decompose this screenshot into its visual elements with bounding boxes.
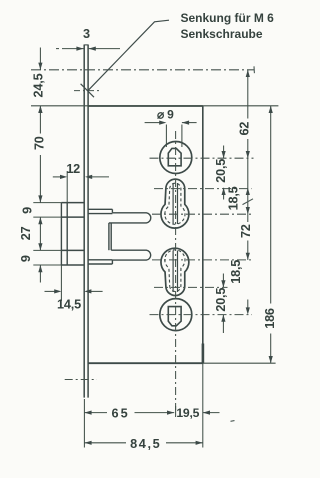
dim 18,5 bottom arrow: [221, 280, 225, 287]
dim 3 line: [56, 48, 59, 50]
dim dia9 line: [145, 122, 160, 124]
svg-text:20,5: 20,5: [214, 288, 228, 312]
svg-text:72: 72: [239, 224, 253, 238]
dim 70 line: [39, 106, 41, 134]
dim 12 line: [53, 176, 61, 178]
dim 62 arrows: [246, 70, 250, 77]
dim 186 arrows: [269, 106, 273, 113]
dim 65 arrows: [84, 411, 91, 415]
extension + dimension lines: [31, 48, 278, 448]
stray stroke near 18,5: [243, 199, 254, 205]
follower hole top (circle): [160, 142, 192, 174]
faceplate: [84, 45, 88, 398]
svg-text:3: 3: [83, 27, 90, 41]
svg-text:186: 186: [263, 308, 277, 329]
svg-text:Senkung für M 6: Senkung für M 6: [181, 11, 275, 25]
svg-text:27: 27: [19, 226, 33, 240]
svg-text:12: 12: [66, 162, 80, 176]
leader line to text: [81, 20, 169, 97]
svg-text:62: 62: [238, 122, 252, 136]
stray dash bottom right: [231, 420, 235, 423]
keyhole 1 inner dashed: [165, 183, 185, 224]
dim 9 top / 27 arrows: [38, 217, 42, 224]
svg-text:24,5: 24,5: [32, 73, 46, 97]
vertical centre line of holes: [175, 131, 177, 410]
screw centre line top: [31, 69, 254, 71]
follower square 9mm bottom: [168, 307, 181, 326]
centre line keyhole2 cap: [154, 286, 228, 288]
centre line keyhole1 cap: [154, 188, 252, 190]
keyhole 2 outer: [161, 248, 189, 295]
follower square 9mm top: [168, 148, 181, 165]
centre line keyhole2 circle: [152, 259, 251, 261]
centre line follower 2: [150, 314, 253, 316]
centre lines: [31, 70, 254, 410]
keyhole 2 key slot: [172, 251, 174, 293]
keyhole 1 key slot: [172, 183, 174, 224]
dim 24,5 arrows: [38, 63, 42, 70]
top extension line: [31, 105, 278, 107]
arrowheads: [38, 47, 273, 445]
lock case outline: [88, 106, 203, 363]
follower hole bottom (circle): [160, 299, 192, 331]
bolt tail fork right of faceplate: [88, 209, 151, 264]
centre line follower 1: [150, 157, 254, 159]
svg-text:19,5: 19,5: [176, 406, 199, 420]
bottom dims 65 / 19,5: [84, 412, 107, 414]
block left face extension down: [60, 265, 62, 301]
dim 9 lower shaft: [39, 265, 41, 283]
svg-text:9: 9: [20, 207, 34, 214]
centre line keyhole1 circle: [152, 213, 254, 215]
svg-text:65: 65: [112, 407, 130, 421]
dim 3 arrows: [76, 47, 83, 51]
bottom dim 84,5: [84, 442, 126, 444]
screw mark dashdot top: [74, 90, 100, 92]
right column 62/18,5/72: [247, 70, 249, 119]
screw centre line bottom: [65, 379, 97, 381]
bottom extension verticals: [83, 399, 85, 448]
svg-text:20,5: 20,5: [214, 159, 228, 183]
dim 9 bottom arrow: [38, 265, 42, 272]
keyhole 1 outer: [161, 179, 189, 228]
svg-text:18,5: 18,5: [229, 260, 243, 284]
dim 20,5 bottom shafts: [222, 274, 224, 288]
svg-text:14,5: 14,5: [57, 298, 81, 312]
dim 72 arrows: [246, 253, 250, 260]
leader cross stroke: [81, 84, 94, 97]
dim 20,5 bottom arrow: [221, 315, 225, 322]
svg-text:9: 9: [19, 255, 33, 262]
dim 70 arrows: [38, 106, 42, 113]
dim 27 line: [39, 217, 41, 250]
dim 19,5 arrow: [203, 411, 210, 415]
svg-text:Senkschraube: Senkschraube: [181, 27, 263, 41]
svg-text:70: 70: [33, 136, 47, 150]
dim 14,5 arrows: [54, 289, 61, 293]
dim dia9 arrows: [159, 121, 166, 125]
bolt head block left of faceplate: [61, 203, 84, 265]
dim 20,5 top arrows: [222, 151, 226, 158]
dim 18,5 top arrows: [246, 188, 250, 195]
dim 186 line: [270, 106, 272, 304]
svg-text:⌀ 9: ⌀ 9: [157, 108, 174, 122]
dim 12 arrows: [60, 175, 67, 179]
dim 84,5 arrows: [84, 441, 91, 445]
svg-text:84,5: 84,5: [130, 437, 161, 451]
dim 14,5 line: [45, 290, 56, 292]
dim 20,5 top shafts: [223, 146, 225, 159]
keyhole 2 inner dashed: [165, 250, 185, 292]
block edge extensions left: [33, 202, 61, 204]
dim 24,5 shafts: [39, 48, 41, 70]
bottom extension line right: [203, 362, 276, 364]
svg-text:18,5: 18,5: [227, 186, 241, 210]
